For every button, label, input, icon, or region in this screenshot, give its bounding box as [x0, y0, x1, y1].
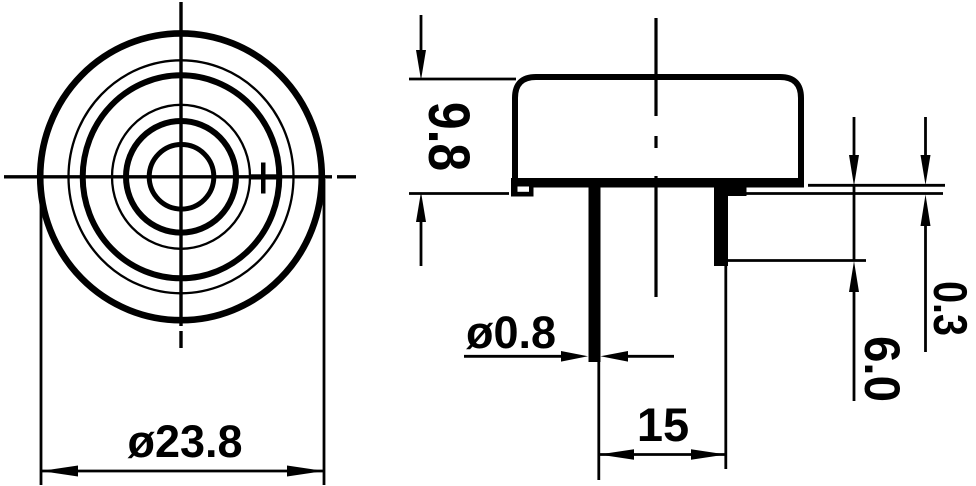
- left crimp lip: [511, 182, 534, 197]
- svg-text:ø23.8: ø23.8: [127, 416, 242, 467]
- svg-text:15: 15: [637, 398, 689, 451]
- horizontal centerline: [4, 175, 356, 178]
- vertical centerline: [179, 2, 182, 348]
- dimension line o23.8: [41, 470, 324, 473]
- dimension 9.8 upper arrow: [420, 15, 423, 52]
- polarity tick mark: [250, 163, 277, 194]
- extension line left (15): [597, 362, 600, 480]
- dimension 0.3 lower arrow: [921, 195, 931, 227]
- flange bottom line (right): [746, 192, 943, 195]
- svg-text:0.3: 0.3: [923, 281, 975, 336]
- arrowhead left (15): [599, 449, 634, 459]
- arrowhead right (o23.8): [287, 466, 324, 477]
- arrowhead right (15): [691, 449, 726, 459]
- arrowhead left (o23.8): [41, 466, 78, 477]
- extension line right (o23.8): [323, 179, 326, 485]
- flange top line (right): [808, 184, 945, 187]
- case body outline: [515, 77, 801, 181]
- leader line o0.8 right: [601, 351, 629, 362]
- side view centerline (dash-dot): [654, 18, 657, 297]
- svg-text:ø0.8: ø0.8: [466, 307, 556, 358]
- left pin: [589, 187, 601, 362]
- leader line o0.8 left: [464, 355, 562, 358]
- dimension 9.8 lower arrow: [416, 192, 426, 222]
- circle ring 5 (thick): [126, 121, 236, 233]
- svg-text:9.8: 9.8: [416, 102, 480, 171]
- circle ring 3 (thick): [83, 75, 280, 278]
- dimension line 15: [599, 453, 726, 456]
- right pin: [714, 187, 728, 266]
- extension line left (o23.8): [40, 179, 43, 485]
- right crimp lip: [728, 187, 747, 196]
- extension line bottom (9.8 / base plate): [409, 192, 509, 195]
- inner circle: [149, 145, 214, 210]
- extension line top (9.8): [409, 78, 516, 81]
- svg-text:6.0: 6.0: [854, 336, 909, 402]
- circle ring 2 (thin): [69, 60, 294, 293]
- dimension 0.3 upper arrow: [924, 117, 927, 156]
- dimension 6.0 upper arrow: [853, 117, 856, 156]
- extension line right (15): [724, 266, 727, 469]
- circle ring 4 (thin): [112, 105, 250, 249]
- case bottom band: [511, 178, 804, 188]
- dimension 6.0 lower arrow: [849, 261, 859, 292]
- outer circle (case rim): [40, 33, 322, 320]
- extension line pin bottom (6.0): [728, 259, 866, 262]
